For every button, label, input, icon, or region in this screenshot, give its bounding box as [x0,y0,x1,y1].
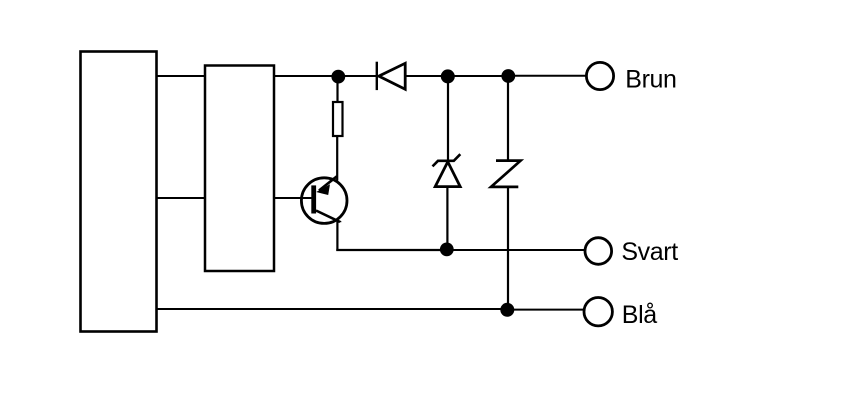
wire: inner block to transistor base [273,197,316,199]
wire: body to node E (Blå line) [157,308,508,310]
terminal Blå [584,298,612,326]
zener Z1 triangle [435,162,460,187]
wire: transistor down to Svart line [336,221,338,251]
terminal Brun [586,62,613,89]
terminal Svart [585,238,612,265]
zener Z1 cathode bar with bent ends [433,154,461,166]
node A (junction at resistor top) [331,70,345,84]
wire: node A down to resistor [336,77,338,103]
wire: node C down to suppressor [507,76,509,161]
transistor Q1 emitter arrowhead [316,184,330,195]
transistor Q1 base bar [311,185,316,213]
wire: diode anode to node B [405,75,448,77]
wire: suppressor down to node E (crosses Svart line) [507,187,509,310]
wire: zener anode down to node D [446,187,448,250]
node C (junction above suppressor) [501,69,515,83]
surge suppressor Z element [491,161,521,187]
diode D1 cathode bar [376,62,378,90]
wire: node B down to zener cathode [447,77,449,160]
wire: transistor to node D (Svart line) [336,249,447,251]
svg-text:Blå: Blå [622,301,657,329]
transistor Q1 emitter lead (top, with arrow) [319,176,337,190]
wire: resistor to transistor collector [336,136,338,181]
wire: node C to Brun terminal [508,75,586,77]
svg-text:Svart: Svart [621,238,678,266]
wire: body to inner block (base drive) [157,197,207,199]
inner amplifier block [205,66,274,272]
transistor Q1 circle [301,178,347,224]
sensor body block [81,52,157,332]
resistor R1 [333,102,343,136]
diode D1 triangle [379,63,405,89]
transistor Q1 collector lead (bottom) [316,211,340,223]
svg-text:Brun: Brun [625,65,676,93]
wire: node B to node C [448,75,508,77]
wire: inner block to node A [273,75,377,77]
wire: node D to Svart terminal [447,249,585,251]
wire: node E to Blå terminal [507,309,584,311]
node E (junction on Blå line) [500,303,514,317]
node B (junction above zener) [441,69,455,83]
node D (zener bottom junction) [440,243,454,257]
wire: body to inner block (top) [157,75,207,77]
